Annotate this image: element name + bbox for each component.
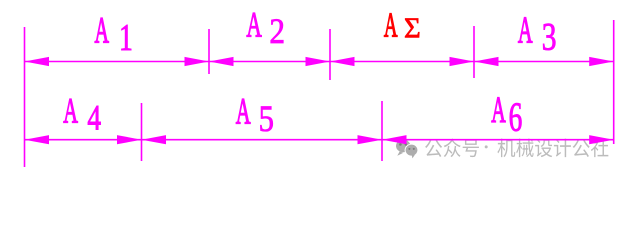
label A6 bbox=[491, 89, 522, 139]
extension line between A1 and A2 bbox=[208, 29, 210, 74]
label A3 bbox=[518, 9, 557, 59]
arrowhead A1 left bbox=[25, 57, 50, 66]
extension line between A4 and A5 bbox=[141, 103, 143, 161]
svg-text:A: A bbox=[63, 92, 78, 131]
label A4 bbox=[63, 92, 101, 137]
dimension-chain diagram 624x172 bbox=[0, 0, 624, 172]
dimension line bottom row (A4 A5 A6) bbox=[25, 139, 614, 141]
watermark text 公众号 · 机械设计公社 bbox=[425, 138, 608, 157]
svg-text:4: 4 bbox=[87, 98, 101, 137]
arrowhead A4 left bbox=[25, 135, 50, 144]
arrowhead A2 right bbox=[306, 57, 331, 66]
label A2 bbox=[246, 6, 285, 51]
svg-text:6: 6 bbox=[509, 94, 523, 140]
svg-text:3: 3 bbox=[542, 16, 557, 59]
arrowhead A5 left bbox=[142, 135, 167, 144]
arrowhead A3 left bbox=[474, 57, 499, 66]
arrowhead A4 right bbox=[117, 135, 142, 144]
arrowhead A2 left bbox=[209, 57, 234, 66]
arrowhead A6 left bbox=[382, 135, 407, 144]
svg-text:Σ: Σ bbox=[404, 14, 421, 45]
arrowhead A5 right bbox=[358, 135, 383, 144]
svg-text:A: A bbox=[491, 89, 506, 130]
svg-text:A: A bbox=[95, 11, 110, 51]
watermark WeChat icon bbox=[396, 140, 418, 159]
svg-text:A: A bbox=[236, 90, 251, 132]
extension line right (common end of A3 and A6) bbox=[613, 20, 615, 144]
svg-text:5: 5 bbox=[259, 99, 274, 139]
arrowhead AΣ right bbox=[450, 57, 475, 66]
svg-text:1: 1 bbox=[119, 17, 133, 59]
dimension line top row (A1 A2 AΣ A3) bbox=[25, 61, 614, 63]
svg-text:A: A bbox=[246, 6, 262, 45]
label AΣ (closing link, red) bbox=[384, 7, 421, 45]
arrowhead A6 right bbox=[589, 135, 614, 144]
label A1 bbox=[95, 11, 133, 59]
arrowhead AΣ left bbox=[330, 57, 355, 66]
arrowhead A1 right bbox=[185, 57, 210, 66]
extension line left (common start of A1 and A4) bbox=[24, 27, 26, 167]
extension line between AΣ and A3 bbox=[473, 26, 475, 78]
label A5 bbox=[236, 90, 274, 140]
svg-text:A: A bbox=[518, 9, 533, 51]
svg-text:2: 2 bbox=[269, 12, 285, 52]
extension line between A5 and A6 bbox=[381, 101, 383, 161]
arrowhead A3 right bbox=[589, 57, 614, 66]
svg-text:A: A bbox=[384, 7, 398, 45]
extension line between A2 and AΣ bbox=[329, 29, 331, 80]
